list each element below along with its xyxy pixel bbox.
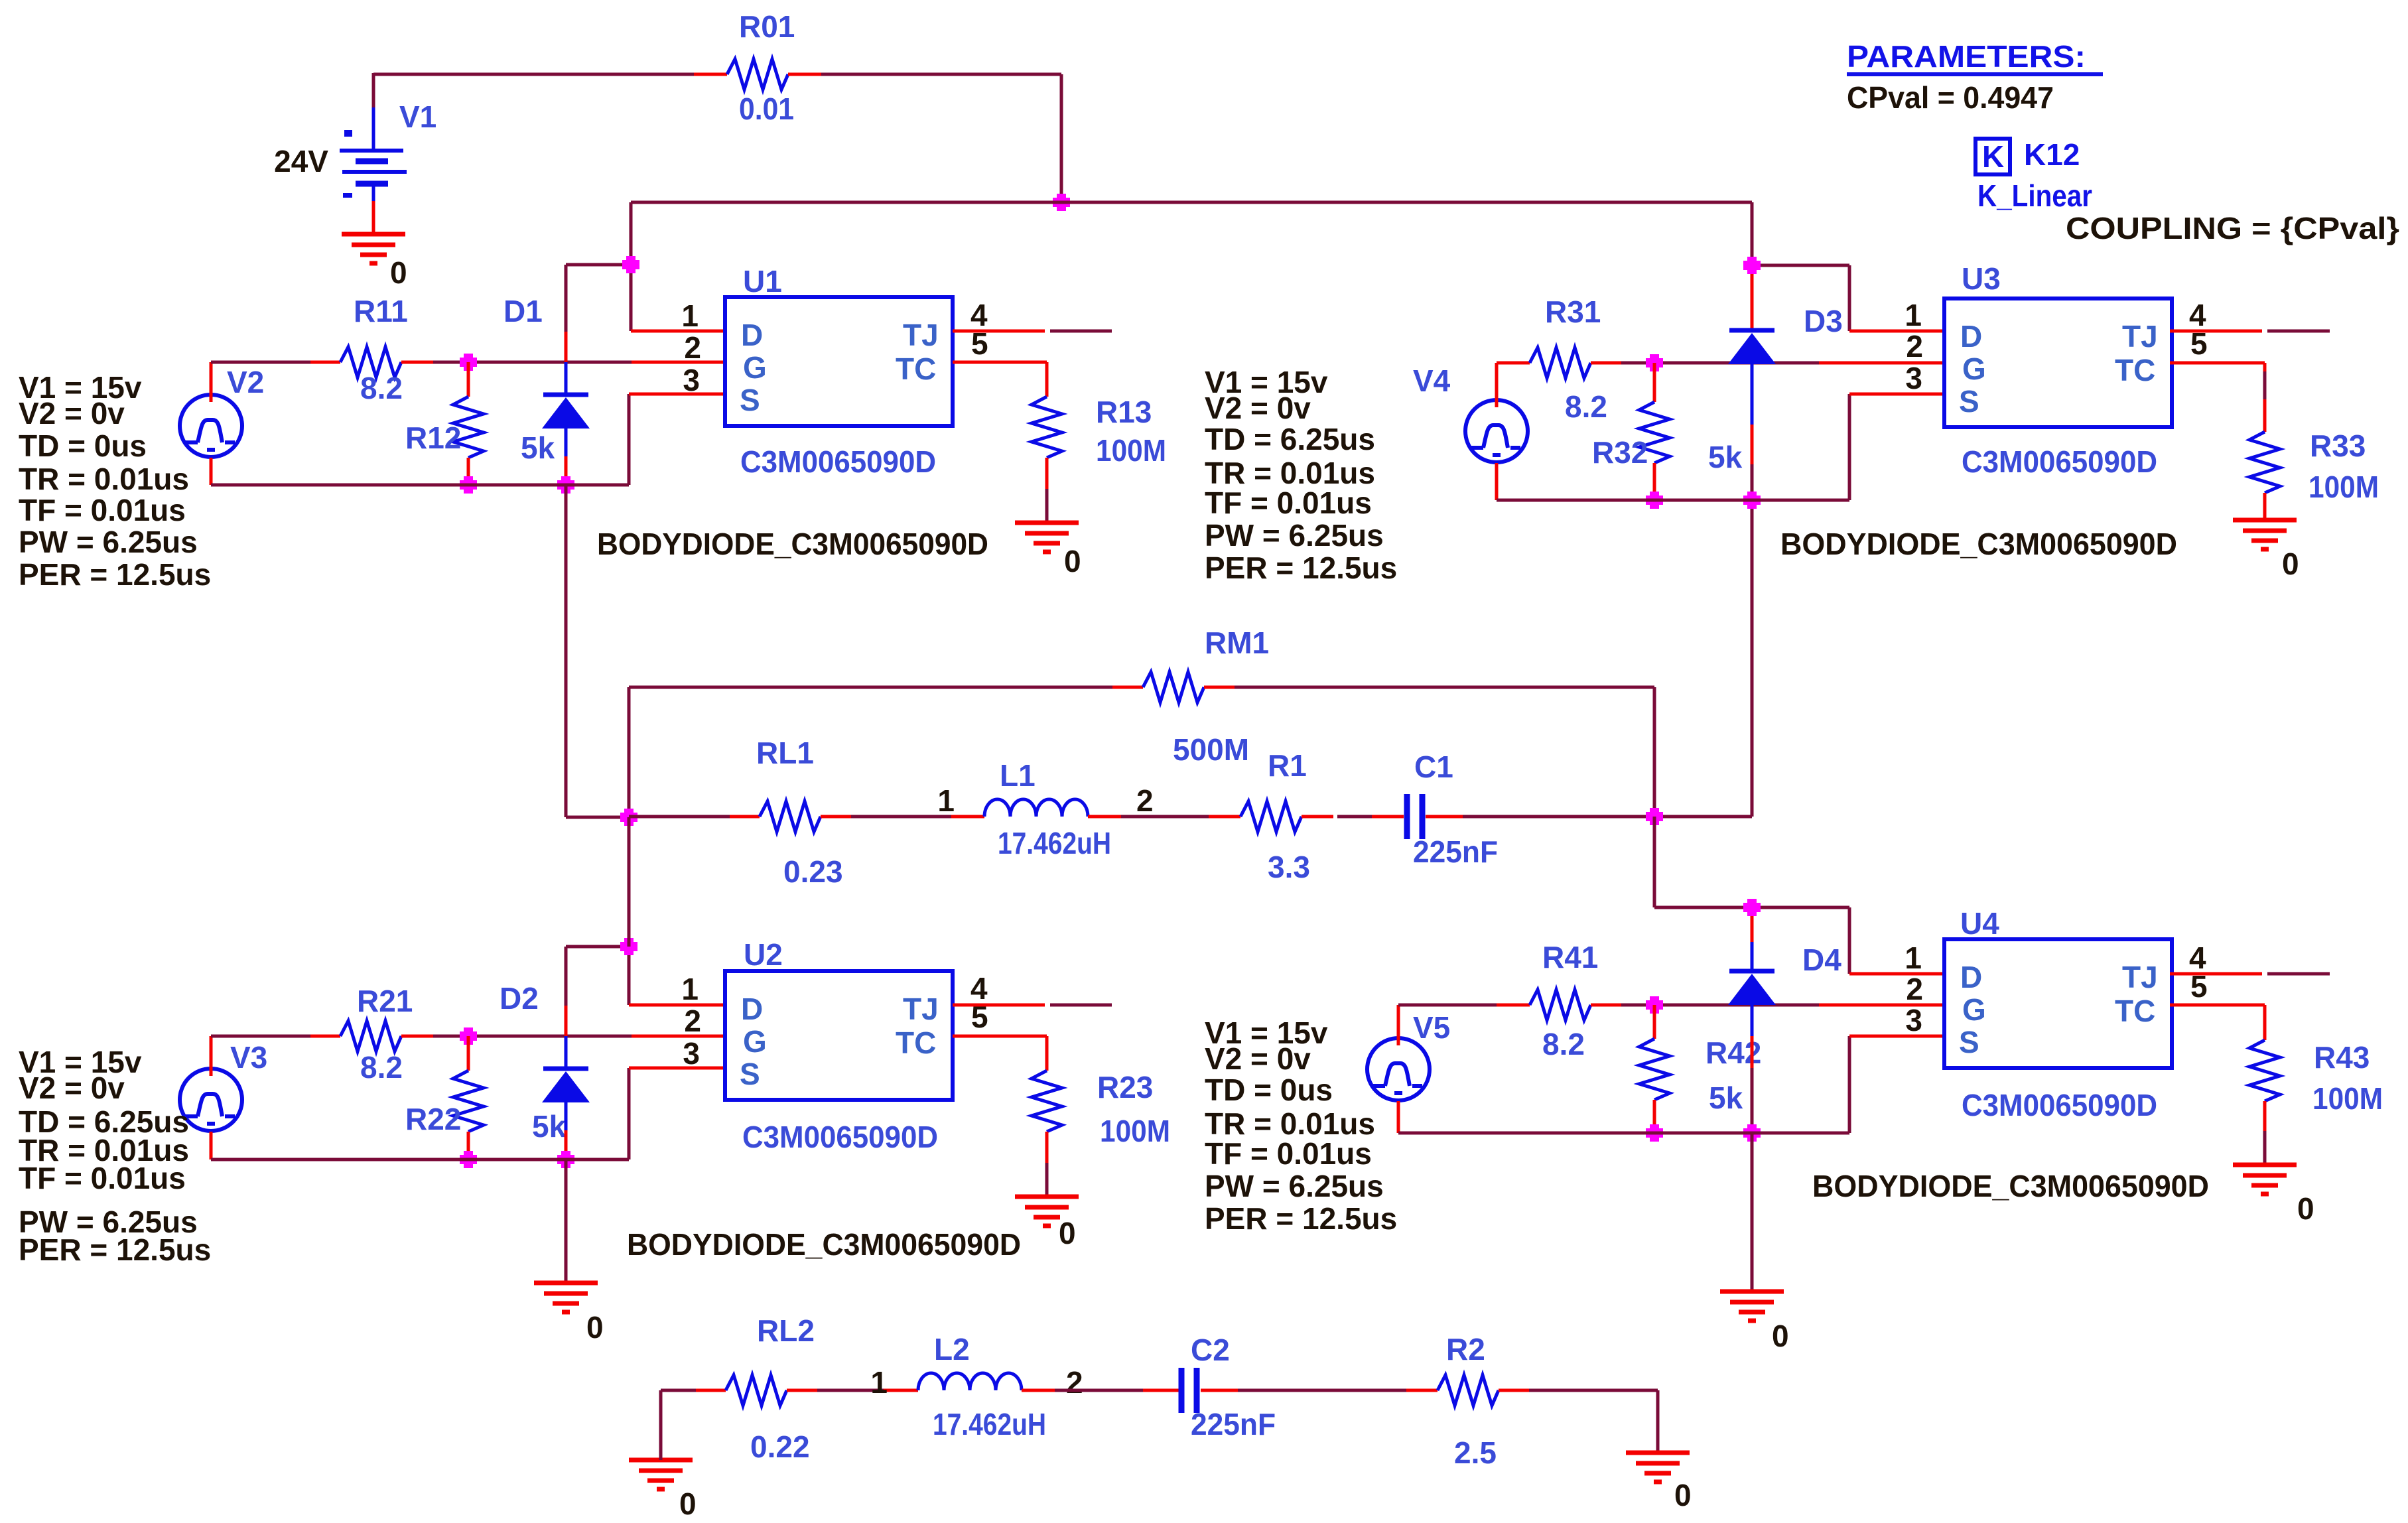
wire RM1 to C1 node [1235, 686, 1654, 689]
wire V4 top stub [1495, 363, 1499, 407]
svg-text:RM1: RM1 [1205, 626, 1269, 660]
svg-text:S: S [1959, 1025, 1979, 1059]
wire pin4 TJ stub [953, 330, 1045, 333]
wire pin5 TC to R43 [2170, 1004, 2265, 1007]
ground 0 below D2 [534, 1281, 598, 1286]
wire RL1 node down to Q2 [628, 817, 631, 947]
node junction D4 bottom [1743, 1128, 1761, 1138]
resistor R2 [1438, 1375, 1499, 1406]
svg-text:TJ: TJ [2122, 960, 2158, 994]
resistor RL1 [629, 815, 730, 819]
inductor L2 [918, 1373, 1022, 1390]
wire R31 to G pin [1621, 362, 1819, 365]
svg-text:BODYDIODE_C3M0065090D: BODYDIODE_C3M0065090D [597, 527, 988, 561]
svg-text:PW = 6.25us: PW = 6.25us [1205, 518, 1384, 553]
svg-text:8.2: 8.2 [1565, 389, 1607, 424]
mosfet U3 [1944, 298, 2172, 427]
resistor R21 [310, 1035, 340, 1038]
wire D4 to ground [1751, 1133, 1754, 1291]
svg-text:K_Linear: K_Linear [1977, 178, 2092, 213]
wire L1 to R1 [1121, 815, 1209, 819]
ground 0 below R43 [2233, 1163, 2297, 1167]
wire gate row Q1 [211, 361, 310, 364]
voltage source V1 (24V battery) [372, 73, 375, 107]
svg-text:1: 1 [1905, 941, 1922, 975]
ground 0 below V1 [342, 232, 405, 237]
svg-text:G: G [1962, 352, 1986, 386]
node junction D node Q4 [1743, 903, 1761, 912]
svg-text:V1: V1 [399, 99, 436, 134]
svg-text:V2: V2 [227, 365, 264, 399]
resistor R22 [467, 1036, 470, 1071]
pulse source V4 [1465, 400, 1528, 462]
svg-text:V2 = 0v: V2 = 0v [19, 1071, 125, 1105]
svg-text:K12: K12 [2024, 137, 2080, 172]
resistor R11 [310, 361, 340, 364]
svg-text:V2 = 0v: V2 = 0v [19, 396, 125, 430]
svg-text:3: 3 [683, 1036, 700, 1071]
svg-text:PER = 12.5us: PER = 12.5us [19, 1232, 211, 1267]
svg-text:R43: R43 [2314, 1040, 2370, 1075]
svg-text:S: S [740, 1057, 760, 1091]
resistor R31 [1497, 362, 1530, 365]
node junction D node Q3 [1743, 261, 1761, 270]
svg-text:BODYDIODE_C3M0065090D: BODYDIODE_C3M0065090D [1780, 527, 2177, 561]
svg-text:0: 0 [1674, 1478, 1692, 1512]
svg-text:R21: R21 [357, 984, 413, 1018]
svg-text:G: G [1962, 992, 1986, 1027]
svg-text:0: 0 [2282, 547, 2299, 581]
wire D bus [631, 201, 1752, 204]
wire pin1 D U3 [1849, 330, 1944, 333]
mosfet U2 [725, 971, 953, 1100]
wire C1 node down to Q4 [1653, 817, 1656, 907]
svg-text:0.23: 0.23 [783, 854, 843, 889]
svg-text:0: 0 [679, 1487, 697, 1521]
svg-text:C3M0065090D: C3M0065090D [1962, 444, 2157, 479]
svg-text:D: D [1960, 960, 1982, 994]
capacitor C2 [1179, 1368, 1185, 1413]
svg-text:C3M0065090D: C3M0065090D [740, 444, 936, 479]
wire C1 to node [1463, 815, 1752, 819]
svg-text:R12: R12 [405, 421, 461, 455]
wire source row Q3 [1495, 463, 1499, 500]
svg-text:U3: U3 [1962, 261, 2001, 296]
svg-text:TD = 6.25us: TD = 6.25us [1205, 422, 1375, 456]
svg-text:C2: C2 [1191, 1333, 1230, 1367]
svg-text:TF = 0.01us: TF = 0.01us [1205, 486, 1372, 520]
svg-text:100M: 100M [1100, 1114, 1170, 1148]
svg-text:TC: TC [2115, 994, 2155, 1028]
resistor R23 [1032, 1071, 1062, 1132]
node junction R42 bottom [1646, 1128, 1663, 1138]
node junction RL1 left [620, 813, 637, 822]
node junction R12 top [460, 358, 477, 367]
wire D node Q2 [566, 945, 629, 949]
resistor R41 [1497, 1004, 1530, 1007]
resistor R43 [2249, 1040, 2280, 1101]
ground 0 below D4 [1720, 1290, 1784, 1294]
wire RL2 to L2 [817, 1389, 884, 1392]
svg-text:BODYDIODE_C3M0065090D: BODYDIODE_C3M0065090D [627, 1227, 1021, 1262]
svg-text:0: 0 [586, 1310, 604, 1345]
wire R2 to ground [1529, 1389, 1658, 1392]
svg-text:U1: U1 [743, 264, 782, 298]
svg-text:R11: R11 [354, 294, 408, 328]
wire R41 to G pin [1621, 1004, 1819, 1007]
svg-text:2: 2 [1136, 783, 1154, 818]
svg-text:3.3: 3.3 [1268, 850, 1310, 884]
wire R1 to C1 [1337, 815, 1372, 819]
svg-text:S: S [1959, 384, 1979, 419]
wire pin4 TJ stub U2 [953, 1004, 1045, 1007]
wire R01 to D bus [821, 73, 1061, 76]
svg-text:CPval = 0.4947: CPval = 0.4947 [1847, 80, 2054, 115]
wire D node Q1 [566, 263, 631, 267]
svg-text:V5: V5 [1413, 1010, 1450, 1045]
node junction R01/bus [1053, 198, 1070, 207]
svg-text:TF = 0.01us: TF = 0.01us [19, 1161, 186, 1195]
ground 0 below R13 [1015, 521, 1079, 525]
svg-text:225nF: 225nF [1191, 1407, 1276, 1441]
svg-text:TD = 0us: TD = 0us [19, 429, 147, 463]
svg-text:C1: C1 [1414, 750, 1453, 784]
svg-text:RL2: RL2 [757, 1313, 815, 1348]
ground 0 left of RL2 [629, 1458, 693, 1463]
svg-text:5k: 5k [1709, 1081, 1743, 1115]
svg-text:3: 3 [1905, 361, 1922, 395]
svg-text:8.2: 8.2 [360, 371, 403, 405]
svg-text:S: S [740, 383, 760, 417]
svg-text:D: D [1960, 319, 1982, 354]
wire R21 to G pin [433, 1035, 632, 1038]
node junction C1 right [1646, 812, 1663, 821]
svg-text:V3: V3 [230, 1040, 267, 1075]
diode D3 [1751, 271, 1754, 329]
node junction D2 bottom [557, 1155, 574, 1164]
svg-text:100M: 100M [2308, 470, 2379, 504]
svg-text:3: 3 [683, 363, 700, 397]
wire C2 to R2 [1238, 1389, 1406, 1392]
svg-text:R01: R01 [739, 9, 795, 44]
svg-text:TF = 0.01us: TF = 0.01us [1205, 1136, 1372, 1171]
resistor R01 [694, 73, 727, 76]
svg-text:L2: L2 [934, 1332, 970, 1366]
wire V2 top stub [210, 362, 213, 402]
svg-text:D1: D1 [503, 294, 543, 328]
svg-text:0: 0 [2297, 1191, 2314, 1226]
node junction R22 top [460, 1031, 477, 1041]
wire RM1 row [628, 687, 631, 817]
wire V1 top to R01 [373, 73, 694, 76]
capacitor C1 [1404, 794, 1410, 839]
svg-text:2: 2 [1906, 329, 1923, 364]
wire D node Q3 [1751, 202, 1754, 271]
svg-text:R2: R2 [1446, 1332, 1485, 1366]
svg-text:G: G [743, 1024, 767, 1059]
resistor R13 [1032, 397, 1062, 458]
svg-text:R23: R23 [1097, 1070, 1153, 1104]
svg-text:PER = 12.5us: PER = 12.5us [19, 557, 211, 592]
diode D1 [565, 265, 568, 332]
svg-text:TC: TC [896, 1026, 936, 1060]
pulse source V3 [180, 1069, 242, 1131]
svg-text:R41: R41 [1542, 940, 1598, 974]
mosfet U4 [1944, 939, 2172, 1068]
wire gate row Q2 [211, 1035, 310, 1038]
svg-text:PARAMETERS:: PARAMETERS: [1847, 39, 2086, 74]
wire Q3 bottom to C1 node [1751, 500, 1754, 817]
node junction D1 bottom [557, 480, 574, 490]
svg-text:0.01: 0.01 [739, 92, 794, 126]
svg-text:R13: R13 [1096, 395, 1152, 429]
svg-text:TC: TC [896, 352, 936, 386]
node junction R32 bottom [1646, 496, 1663, 505]
svg-text:1: 1 [681, 972, 699, 1006]
coupling K12 [1975, 139, 2010, 174]
wire pin1 D [631, 330, 725, 333]
wire RL1 to L1 [851, 815, 951, 819]
svg-text:R22: R22 [405, 1102, 461, 1136]
svg-text:PER = 12.5us: PER = 12.5us [1205, 1201, 1397, 1236]
svg-text:1: 1 [937, 783, 955, 818]
svg-text:8.2: 8.2 [1542, 1027, 1585, 1061]
svg-text:D2: D2 [500, 981, 539, 1016]
resistor R33 [2249, 432, 2280, 493]
svg-text:0: 0 [1064, 544, 1081, 578]
resistor RL2 [696, 1389, 726, 1392]
svg-text:5k: 5k [521, 430, 555, 465]
pulse source V5 [1367, 1038, 1430, 1100]
wire source row Q4 [1397, 1101, 1400, 1133]
svg-text:TC: TC [2115, 353, 2155, 387]
svg-text:2: 2 [1066, 1365, 1083, 1400]
wire pin5 TC to R23 [953, 1035, 1047, 1038]
svg-text:COUPLING = {CPval}: COUPLING = {CPval} [2066, 211, 2399, 245]
resistor R32 [1653, 363, 1656, 402]
svg-text:R31: R31 [1545, 295, 1601, 329]
svg-text:2: 2 [684, 330, 701, 365]
svg-text:100M: 100M [2312, 1081, 2383, 1116]
node junction D node Q2 [620, 942, 637, 951]
svg-text:TR = 0.01us: TR = 0.01us [19, 462, 189, 496]
svg-text:PW = 6.25us: PW = 6.25us [19, 525, 198, 559]
wire pin1 D U4 [1849, 972, 1944, 976]
resistor RM1 [1112, 686, 1143, 689]
wire pin4 TJ stub U4 [2170, 972, 2262, 976]
svg-text:17.462uH: 17.462uH [998, 826, 1111, 860]
svg-text:PER = 12.5us: PER = 12.5us [1205, 551, 1397, 585]
svg-text:TJ: TJ [903, 318, 939, 352]
svg-text:D4: D4 [1802, 943, 1841, 977]
wire source row Q1 [210, 458, 213, 485]
svg-text:1: 1 [681, 298, 699, 333]
svg-text:500M: 500M [1173, 732, 1249, 767]
svg-text:C3M0065090D: C3M0065090D [742, 1120, 938, 1154]
svg-text:V2 = 0v: V2 = 0v [1205, 391, 1311, 425]
svg-text:1: 1 [1905, 298, 1922, 332]
mosfet U1 [725, 297, 953, 426]
wire gate row Q4 [1398, 1004, 1497, 1007]
node junction R42 top [1646, 1000, 1663, 1010]
svg-text:8.2: 8.2 [360, 1050, 403, 1085]
resistor R42 [1653, 1005, 1656, 1039]
svg-text:V2 = 0v: V2 = 0v [1205, 1041, 1311, 1076]
svg-text:5k: 5k [1708, 440, 1743, 474]
diode D2 [565, 947, 568, 1006]
ground 0 below R33 [2233, 518, 2297, 523]
svg-text:D: D [741, 318, 763, 352]
svg-text:G: G [743, 350, 767, 385]
svg-text:0: 0 [1772, 1319, 1789, 1353]
wire Q1 bottom to RL1 node [565, 485, 568, 817]
svg-text:2.5: 2.5 [1454, 1435, 1497, 1470]
svg-text:225nF: 225nF [1413, 834, 1498, 869]
svg-text:R32: R32 [1592, 435, 1648, 470]
svg-text:RL1: RL1 [756, 736, 814, 770]
svg-text:C3M0065090D: C3M0065090D [1962, 1088, 2157, 1122]
svg-text:2: 2 [684, 1004, 701, 1038]
pulse source V2 [180, 395, 242, 457]
svg-text:1: 1 [870, 1365, 888, 1400]
diode D4 [1751, 911, 1754, 942]
node junction D node Q1 [622, 260, 639, 269]
node junction R22 bottom [460, 1155, 477, 1164]
svg-text:PW = 6.25us: PW = 6.25us [1205, 1169, 1384, 1203]
wire R11 to G pin [433, 361, 632, 364]
svg-text:R1: R1 [1268, 748, 1307, 783]
svg-text:BODYDIODE_C3M0065090D: BODYDIODE_C3M0065090D [1812, 1169, 2209, 1203]
wire pin5 TC to R13 [953, 361, 1047, 364]
svg-text:TJ: TJ [2122, 319, 2158, 354]
resistor R1 [1240, 801, 1302, 832]
svg-text:17.462uH: 17.462uH [933, 1407, 1046, 1441]
wire pin1 D U2 [629, 1004, 725, 1007]
svg-text:TF = 0.01us: TF = 0.01us [19, 493, 186, 527]
wire pin5 TC to R33 [2170, 362, 2265, 365]
wire source row Q2 [210, 1132, 213, 1159]
wire L2 to C2 [1055, 1389, 1143, 1392]
svg-text:24V: 24V [274, 144, 328, 178]
ground 0 right of R2 [1626, 1451, 1690, 1455]
svg-text:L1: L1 [1000, 758, 1036, 793]
svg-text:0: 0 [390, 255, 407, 290]
svg-text:2: 2 [1906, 972, 1923, 1006]
svg-text:3: 3 [1905, 1003, 1922, 1037]
node junction R32 top [1646, 358, 1663, 367]
wire D2 to ground [565, 1159, 568, 1283]
wire pin4 TJ stub U3 [2170, 330, 2262, 333]
svg-text:100M: 100M [1096, 433, 1166, 468]
svg-text:TD = 0us: TD = 0us [1205, 1073, 1333, 1107]
svg-text:U2: U2 [744, 937, 783, 972]
svg-text:0.22: 0.22 [750, 1429, 810, 1464]
node junction D3 bottom [1743, 496, 1761, 505]
wire V3 top stub [210, 1036, 213, 1076]
wire V5 top stub [1397, 1005, 1400, 1045]
svg-text:5k: 5k [532, 1109, 567, 1144]
wire ground to RL2 [659, 1390, 663, 1460]
resistor R12 [467, 362, 470, 397]
ground 0 below R23 [1015, 1195, 1079, 1199]
inductor L1 [984, 799, 1088, 817]
node junction R12 bottom [460, 480, 477, 490]
svg-text:D: D [741, 992, 763, 1026]
svg-text:0: 0 [1059, 1216, 1076, 1250]
svg-text:U4: U4 [1960, 906, 1999, 941]
svg-text:TJ: TJ [903, 992, 939, 1026]
svg-text:V4: V4 [1413, 364, 1451, 398]
svg-text:K: K [1982, 139, 2004, 174]
svg-text:R33: R33 [2310, 429, 2366, 463]
svg-text:D3: D3 [1804, 304, 1843, 338]
